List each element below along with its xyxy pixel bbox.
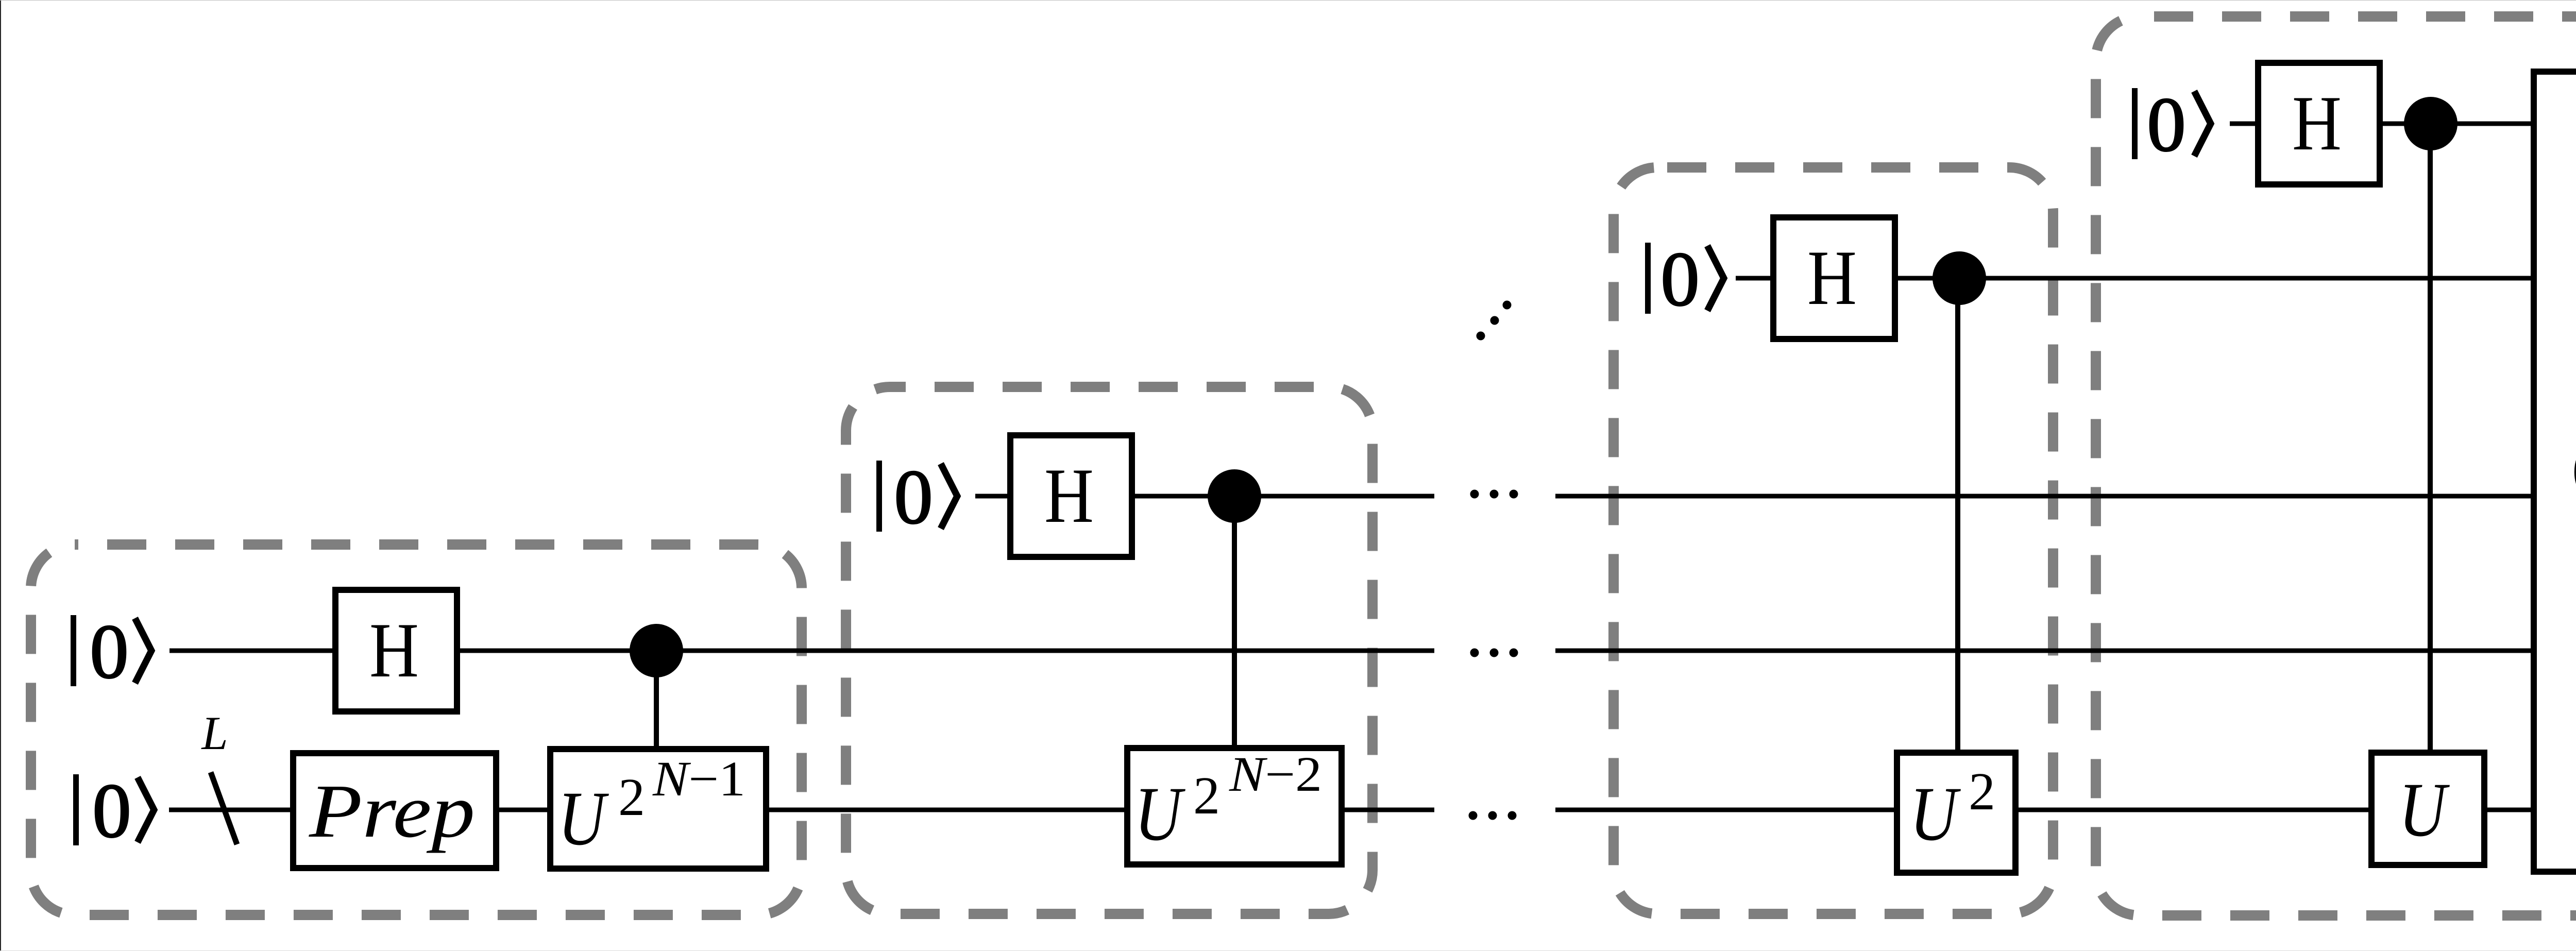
svg-text:U: U [2399,767,2450,853]
svg-text:U: U [1134,771,1185,857]
svg-text:U: U [558,776,609,861]
svg-text:N−1: N−1 [652,751,745,806]
svg-text:Prep: Prep [309,769,475,854]
svg-text:N−2: N−2 [1229,746,1322,802]
svg-text:H: H [1044,452,1094,539]
svg-text:2: 2 [1193,766,1220,825]
svg-text:0: 0 [90,609,129,694]
svg-text:H: H [2292,80,2342,166]
svg-text:2: 2 [618,768,645,827]
svg-text:H: H [369,607,419,693]
svg-text:L: L [200,707,228,759]
svg-text:0: 0 [894,454,933,540]
svg-text:2: 2 [1969,762,1995,821]
svg-text:U: U [1910,771,1961,857]
svg-text:0: 0 [93,768,131,854]
svg-text:0: 0 [2147,82,2186,167]
svg-text:H: H [1807,234,1857,321]
svg-text:0: 0 [1661,236,1700,322]
svg-text:QFT: QFT [2571,428,2576,515]
